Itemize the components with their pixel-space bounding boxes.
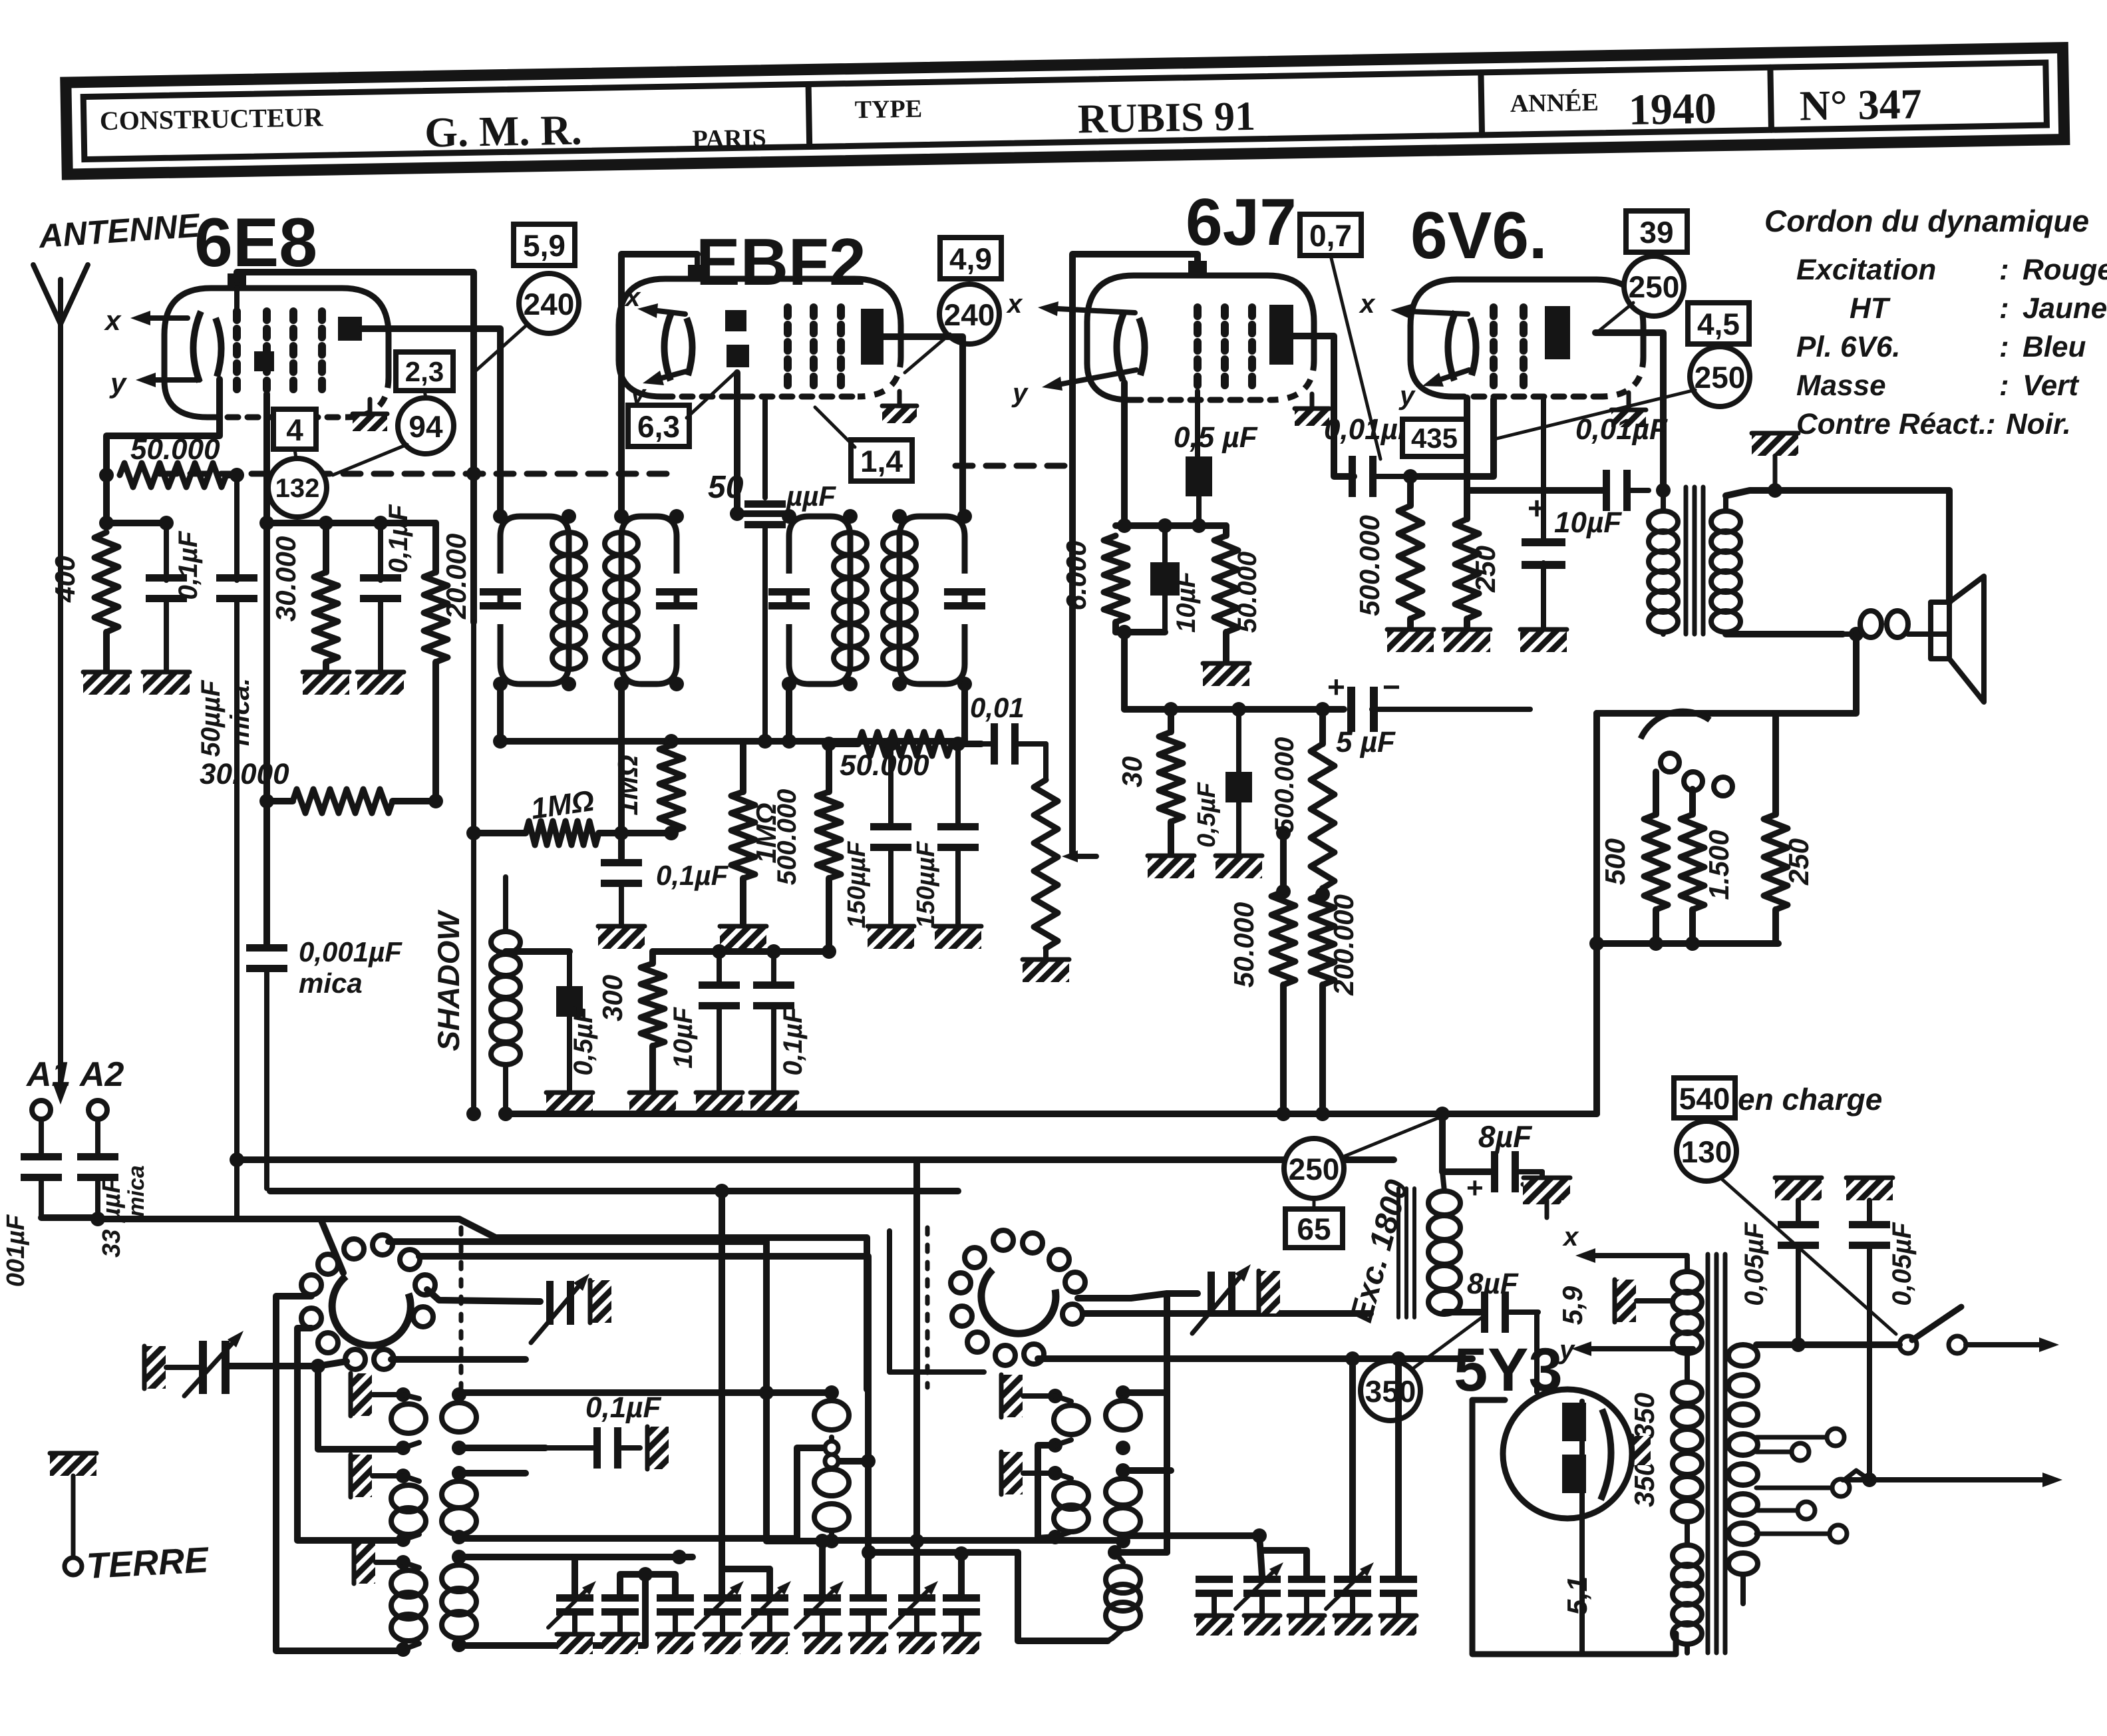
wire B3 bot rail	[459, 1574, 645, 1646]
tube 6J7 x lead	[1038, 301, 1135, 316]
svg-text:+: +	[1528, 491, 1546, 526]
svg-text:+: +	[1327, 669, 1345, 704]
label x (EBF2)	[624, 283, 641, 312]
capacitor 10µF (6V6 k)	[1520, 398, 1567, 652]
label Contre React	[1796, 408, 2071, 440]
junction y1743 left	[230, 1152, 244, 1167]
padder trimmer mid ground	[589, 1280, 611, 1323]
voltage circle 130	[1677, 1121, 1736, 1181]
tone switch contacts	[1641, 711, 1732, 796]
ground TERRE symbol	[50, 1452, 96, 1575]
svg-text:540: 540	[1679, 1081, 1730, 1116]
wire C2 top	[832, 1458, 868, 1465]
svg-text:0,1µF: 0,1µF	[778, 1006, 808, 1076]
tube 6E8 y lead	[136, 373, 200, 387]
wire sw1 exit2	[419, 1256, 868, 1393]
label 0,05µF 2	[1887, 1222, 1917, 1306]
label 1MΩ v2	[750, 802, 782, 863]
potentiometer 500.000 (volume)	[1023, 744, 1096, 982]
osc coil A1	[391, 1395, 426, 1455]
wire y arrow tr	[1571, 1341, 1693, 1356]
svg-text:20.000: 20.000	[440, 534, 472, 619]
label Masse	[1796, 369, 2080, 402]
mains selector contact 5	[1756, 1525, 1847, 1542]
junction 50k left	[99, 468, 114, 482]
junction k	[1117, 518, 1172, 639]
svg-text:x: x	[624, 283, 641, 312]
padder row rail 3	[723, 1566, 770, 1572]
tube 6J7 cathode	[1116, 311, 1144, 381]
tube 6V6 anode	[1545, 306, 1570, 359]
voltage circle 250b	[1690, 347, 1750, 407]
svg-text:50µµF: 50µµF	[196, 679, 226, 757]
wire sw2 right 1	[1078, 1294, 1167, 1298]
padder cap L1	[548, 1581, 596, 1654]
resistor 50.000 (6J7 g2)	[1214, 526, 1238, 662]
svg-text:x: x	[1006, 289, 1023, 319]
ground under 30	[1148, 854, 1194, 878]
antenna trimmer ground	[143, 1346, 200, 1389]
osc coil B3	[442, 1550, 476, 1652]
switch2 contact 8	[1062, 1304, 1082, 1324]
svg-text:0,5µF: 0,5µF	[1193, 781, 1221, 848]
label 50.000 (6E8)	[130, 433, 220, 466]
callout line 250-65	[1314, 1118, 1438, 1209]
wire D1b top to trimmer2	[1123, 1294, 1198, 1393]
tube 6E8 grid col x484	[318, 311, 326, 394]
power transformer HV sec top	[1673, 1258, 1702, 1382]
tube 5Y3 label	[1454, 1336, 1563, 1404]
label 50.000 g2	[1233, 552, 1262, 633]
wire sw2 right 3	[1038, 1355, 1472, 1362]
IF transformer 1 primary	[480, 509, 585, 691]
rotary switch 2 body	[981, 1270, 1056, 1333]
callout line 4-132	[295, 449, 296, 458]
wire D3 top link	[1115, 1549, 1167, 1556]
wire pot riser	[1069, 426, 1076, 744]
svg-text:0,5 µF: 0,5 µF	[1174, 421, 1258, 454]
svg-text:250: 250	[1470, 546, 1501, 593]
capacitor 0,01µF (feedback)	[1603, 470, 1649, 511]
tube 6V6 grid col x2245	[1490, 307, 1498, 389]
wire 8uF-2 feed	[1444, 1309, 1480, 1315]
wire EBF2 anode right	[884, 337, 963, 516]
wire mid v1b	[766, 1393, 797, 1541]
svg-text:Masse: Masse	[1796, 369, 1886, 402]
resistor 250 (tone)	[1764, 713, 1788, 944]
svg-text:G. M. R.: G. M. R.	[424, 106, 583, 156]
junction droppers	[1276, 826, 1330, 902]
svg-text:0,1µF: 0,1µF	[384, 504, 413, 574]
svg-text:150µµF: 150µµF	[843, 840, 871, 928]
svg-text:y: y	[109, 367, 128, 399]
voltage circle 350	[1361, 1361, 1420, 1421]
tube 6E8 g2 terminal	[254, 351, 274, 371]
switch2 contact 6	[1065, 1272, 1085, 1292]
label 500.000 dropper	[1270, 737, 1299, 834]
bus AVC y1674	[506, 1111, 1597, 1117]
svg-text:130: 130	[1681, 1134, 1732, 1169]
tube 6E8 x lead	[130, 311, 188, 325]
label 500 tone	[1599, 838, 1631, 885]
padder riser 2033	[1349, 1359, 1356, 1576]
callout line 350	[1412, 1316, 1484, 1369]
svg-text:SHADOW: SHADOW	[431, 910, 466, 1051]
svg-text:94: 94	[408, 409, 443, 444]
wire D1a bottom	[1038, 1445, 1055, 1538]
tube EBF2 x lead	[637, 303, 685, 318]
capacitor 0,1µF (EBF2 k)	[750, 952, 797, 1115]
wire 6V6 anode out	[1595, 333, 1663, 490]
junction 500k top	[1315, 702, 1330, 717]
svg-text:5,1: 5,1	[1561, 1576, 1593, 1615]
terminal A1	[32, 1101, 51, 1158]
osc coil B2	[442, 1466, 476, 1544]
padder riser 2102	[1395, 1359, 1402, 1576]
svg-text:1940: 1940	[1628, 85, 1716, 134]
IF transformer 1 secondary	[605, 509, 697, 691]
label en charge	[1738, 1082, 1882, 1117]
resistor 500.000 (EBF2 g)	[817, 744, 841, 952]
svg-text:0,1µF: 0,1µF	[656, 860, 729, 891]
voltage box 6,3	[628, 405, 689, 446]
svg-text:350: 350	[1365, 1374, 1416, 1409]
label 6.000	[1060, 540, 1092, 610]
capacitor 001µF (A1)	[21, 1153, 62, 1218]
svg-text:Noir.: Noir.	[2006, 408, 2071, 440]
ground sec	[1613, 1280, 1670, 1322]
svg-text:−: −	[1382, 669, 1400, 704]
tube EBF2 cathode	[664, 311, 692, 381]
label 0,5µF ebf2	[569, 1006, 598, 1076]
field coil core	[1398, 1188, 1414, 1317]
osc trimmer 2	[1192, 1264, 1251, 1333]
capacitor 10µF (EBF2)	[696, 952, 742, 1115]
junction riser1086	[715, 1184, 729, 1198]
tube EBF2 diode plate 1	[725, 310, 746, 331]
tube 6J7 grid col x1841	[1221, 307, 1229, 391]
resistor 30.000 (vertical)	[314, 523, 338, 671]
tube 5Y3 anode 1	[1562, 1403, 1586, 1441]
label 5,9 sec	[1557, 1286, 1588, 1325]
mains selector contact 2	[1756, 1443, 1809, 1461]
label 150µµF 2	[912, 840, 940, 928]
switch2 contact 4	[1049, 1250, 1069, 1270]
label minus 5uF	[1382, 669, 1400, 704]
voltage box 540	[1674, 1078, 1735, 1118]
label 50µµF	[196, 679, 226, 757]
junction bus1674	[466, 1107, 1450, 1121]
label 50.000 dropper	[1228, 902, 1259, 987]
padder row rail 4	[819, 1541, 826, 1594]
resistor 50.000 (AF)	[829, 732, 981, 756]
osc coil B1	[442, 1387, 476, 1455]
antenna symbol	[33, 265, 88, 324]
tube EBF2 grid col x1264	[837, 307, 845, 387]
callout line 39	[1597, 303, 1633, 333]
wire osc left v2	[297, 1328, 403, 1540]
wire sec top	[1726, 490, 1949, 496]
svg-text:250: 250	[1783, 838, 1814, 886]
label 20.000	[440, 534, 472, 619]
label 001µF	[2, 1214, 30, 1287]
tube EBF2 grid col x1184	[784, 307, 792, 387]
junction row5	[954, 1546, 969, 1561]
IF transformer 2 primary	[768, 509, 867, 691]
capacitor 0,05µF #2	[1849, 1221, 1890, 1480]
label 33µµF mica	[98, 1165, 149, 1258]
label 8µF 2	[1467, 1268, 1519, 1300]
label 5,1 sec	[1561, 1576, 1593, 1615]
gang link dashed 2	[925, 1228, 930, 1387]
svg-text:132: 132	[275, 474, 320, 503]
svg-text:150µµF: 150µµF	[912, 840, 940, 928]
svg-text:1MΩ: 1MΩ	[612, 755, 643, 815]
mid coil D1a	[1048, 1396, 1088, 1453]
wire EBF2 cath rail	[653, 948, 830, 955]
wire AVC long y1114	[500, 738, 965, 745]
svg-text:0,001µF: 0,001µF	[299, 936, 403, 967]
svg-text:mica.: mica.	[226, 678, 255, 746]
junction af1	[822, 737, 965, 751]
svg-text:x: x	[104, 305, 122, 336]
tube 6J7 envelope ground	[1295, 394, 1329, 426]
mains switch	[1899, 1307, 1966, 1353]
resistor 1MΩ vertical (osc grid)	[659, 741, 683, 833]
svg-text:+: +	[1466, 1172, 1484, 1204]
callout line 1,4	[815, 407, 855, 447]
mains selector link	[1844, 1471, 1869, 1480]
svg-text:001µF: 001µF	[2, 1214, 30, 1287]
wire B1 top tap	[459, 1389, 828, 1396]
padder loop D3 return	[1018, 1552, 1108, 1641]
switch1 contact 7	[301, 1308, 321, 1328]
resistor 500.000 (6V6 g)	[1398, 476, 1422, 628]
capacitor 8µF #2	[1481, 1292, 1538, 1333]
svg-text:10µF: 10µF	[1172, 570, 1201, 633]
label mica.	[226, 678, 255, 746]
label 400 (rotated)	[49, 556, 81, 603]
wire 6J7 anode	[1293, 336, 1354, 476]
voltage circle 94	[398, 398, 454, 454]
wire EBF2 topcap box	[621, 254, 697, 516]
label Cordon du dynamique	[1764, 204, 2089, 238]
svg-text:500.000: 500.000	[772, 789, 802, 886]
callout line 5,9/240	[474, 326, 526, 373]
svg-text:TERRE: TERRE	[86, 1540, 211, 1586]
wire tone left rail	[1593, 713, 1600, 1114]
label 0,1µF k	[778, 1006, 808, 1076]
label 30.000 v	[270, 536, 301, 621]
label y (6J7)	[1011, 379, 1029, 408]
switch2 frame	[890, 1231, 984, 1372]
wire mains arrow 2	[1843, 1473, 2062, 1487]
tube EBF2 envelope ground	[882, 391, 917, 423]
voltage box 4,9	[940, 238, 1001, 279]
callout line 6,3	[687, 373, 735, 418]
svg-text:240: 240	[524, 287, 575, 321]
padder riser 1086	[719, 1191, 725, 1594]
svg-text:x: x	[1359, 289, 1376, 319]
wire D2b top tap	[1123, 1467, 1171, 1474]
svg-text:250: 250	[1289, 1152, 1340, 1186]
wire 5Y3 frame	[1472, 1400, 1676, 1654]
svg-text:EBF2: EBF2	[696, 225, 866, 299]
padder cap R2	[1235, 1562, 1283, 1636]
ground under 250	[1444, 628, 1490, 652]
label 1.500	[1703, 830, 1734, 900]
junction cr	[712, 944, 836, 959]
wire pot wiper to 6J7 grid	[1069, 744, 1076, 856]
wire trimmerB riser	[1164, 1393, 1170, 1552]
svg-text:TYPE: TYPE	[854, 95, 922, 124]
label 500.000 6v6	[1354, 515, 1385, 616]
tube 5Y3 envelope	[1503, 1389, 1632, 1518]
power transformer core	[1708, 1254, 1725, 1653]
label 50.000 af	[840, 749, 929, 782]
junction 30k	[259, 794, 443, 808]
svg-text:240: 240	[944, 297, 995, 332]
junction rail e	[99, 516, 114, 530]
capacitor 150µµF #1	[868, 744, 914, 949]
ground under 50.000 g2	[1203, 662, 1249, 686]
mid coil D2b	[1106, 1463, 1140, 1548]
svg-text::: :	[1999, 254, 2009, 286]
tube 6E8 cathode	[193, 311, 221, 382]
field coil Exc.1800	[1428, 1172, 1460, 1314]
tube 6E8 top cap	[228, 273, 246, 313]
junction grid-res	[230, 468, 244, 482]
tube 6V6 cathode	[1448, 311, 1476, 381]
svg-text:en charge: en charge	[1738, 1082, 1882, 1117]
svg-text:1,4: 1,4	[860, 444, 903, 478]
label Pl.6V6	[1796, 331, 2086, 363]
osc gnd 2	[349, 1455, 410, 1497]
wire C1 bottom	[797, 1448, 832, 1538]
svg-text:400: 400	[49, 556, 81, 603]
osc gnd 3	[353, 1541, 410, 1584]
power transformer HV sec bottom	[1673, 1522, 1702, 1653]
ground under 30.000	[303, 671, 349, 695]
padder cap L4	[696, 1581, 744, 1654]
switch1 contact 4	[400, 1250, 420, 1270]
svg-text:50.000: 50.000	[840, 749, 929, 782]
switch1 contact 2	[373, 1235, 393, 1255]
label 300	[597, 975, 628, 1021]
junction row	[672, 1528, 1267, 1564]
label 250 tone	[1783, 838, 1814, 886]
tube 5Y3 anode 2	[1562, 1455, 1586, 1493]
label mica	[299, 967, 363, 999]
capacitor 8µF #1	[1491, 1151, 1561, 1204]
svg-text:350: 350	[1629, 1393, 1660, 1439]
tube 6J7 anode	[1269, 305, 1293, 365]
wire x arrow tr	[1575, 1248, 1687, 1263]
ground right bottom	[1524, 1176, 1570, 1200]
resistor 1MΩ vertical #2	[731, 741, 755, 925]
capacitor 150µµF #2	[935, 744, 981, 949]
switch1 contact 3	[318, 1254, 338, 1274]
wire screen rail	[267, 394, 436, 523]
label y (6V6)	[1398, 381, 1416, 411]
junction anode path	[466, 466, 481, 481]
switch1 contact 10	[345, 1349, 365, 1369]
svg-text:30.000: 30.000	[200, 758, 289, 790]
callout line 94	[333, 391, 426, 475]
wire mains arrow	[1966, 1337, 2059, 1352]
wire 6E8 anode to IF1	[362, 329, 500, 516]
svg-text:4: 4	[286, 413, 303, 447]
label y (6E8)	[109, 367, 128, 399]
tube 5Y3 filament	[1601, 1409, 1611, 1500]
capacitor 50µµF mica	[216, 475, 257, 1219]
svg-text:39: 39	[1639, 215, 1673, 250]
wire A1 to A2 junction	[41, 1214, 98, 1221]
wire 1M to zig	[621, 830, 671, 836]
label Excitation	[1796, 254, 2107, 286]
padder cap R1	[1196, 1576, 1233, 1636]
label 0,5µF 6j7	[1174, 421, 1258, 454]
output transformer secondary	[1711, 496, 1740, 634]
wire 6E8 top-cap loop	[237, 272, 474, 622]
mains selector contact 3	[1756, 1479, 1850, 1496]
label 10µF ebf2	[669, 1006, 698, 1069]
svg-text:0,7: 0,7	[1309, 218, 1352, 253]
voltage box 1,4	[851, 440, 912, 481]
mains selector contact 4	[1756, 1502, 1815, 1519]
wire cathode to 50.000	[106, 379, 220, 523]
padder row rail 1	[575, 1557, 693, 1594]
svg-text:500.000: 500.000	[1270, 737, 1299, 834]
tube 6J7 y lead	[1042, 370, 1136, 391]
switch2 contact 2	[1023, 1233, 1043, 1253]
voltage box 4,5	[1688, 303, 1749, 344]
power transformer primary	[1728, 1345, 1758, 1604]
wire sw2 right 2	[1084, 1310, 1371, 1317]
svg-text:Bleu: Bleu	[2023, 331, 2086, 363]
padder cap R5	[1380, 1576, 1417, 1636]
junction rail5	[862, 1545, 876, 1560]
label ANTENNE	[37, 206, 202, 255]
wire sw1 exit1	[389, 1242, 766, 1393]
svg-text:x: x	[1562, 1222, 1579, 1252]
gang link dashed 1	[459, 1228, 464, 1387]
svg-text:0,01: 0,01	[970, 692, 1025, 723]
switch2 contact 11	[1024, 1344, 1044, 1364]
wire IF1 pri bottom down	[497, 684, 504, 741]
wire dropper top	[1280, 833, 1287, 892]
voltage box 65	[1285, 1209, 1343, 1248]
switch1 contact 11	[374, 1349, 394, 1369]
output transformer primary	[1649, 490, 1678, 634]
junction 30	[1164, 702, 1246, 717]
capacitor 0,01µF (6J7-6V6)	[1349, 456, 1410, 497]
wire trimmer to coil A1	[226, 1366, 399, 1449]
ground under 500.000	[1387, 628, 1434, 652]
capacitor 0,5µF (EBF2)	[546, 952, 593, 1115]
capacitor 33µµF mica (A2)	[77, 1153, 118, 1219]
tube 6E8 label	[194, 204, 317, 281]
tube 6V6 envelope ground	[1611, 393, 1646, 427]
label 0,1uF mid	[585, 1391, 662, 1424]
padder cap L8	[890, 1581, 938, 1654]
label 10µF 6v6	[1554, 506, 1622, 539]
wire mid v3	[913, 1160, 920, 1594]
voltage box 0,7	[1300, 214, 1361, 256]
ground cap 0,05 #1	[1775, 1176, 1822, 1223]
power transformer HV sec mid	[1673, 1382, 1702, 1522]
label 1MΩ shadow	[529, 784, 596, 826]
